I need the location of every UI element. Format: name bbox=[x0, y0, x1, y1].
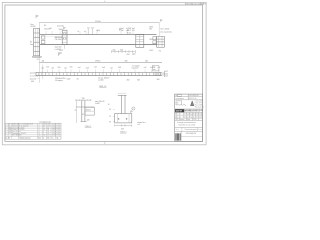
svg-text:Пров: Пров bbox=[199, 114, 202, 116]
svg-text:L=1200: L=1200 bbox=[98, 80, 104, 82]
svg-text:450: 450 bbox=[112, 50, 115, 52]
svg-text:0415-КМД1-025-2013-ТХ.СБ: 0415-КМД1-025-2013-ТХ.СБ bbox=[186, 3, 207, 5]
svg-text:18: 18 bbox=[47, 129, 49, 131]
svg-text:0415-КМД1.СБ: 0415-КМД1.СБ bbox=[186, 133, 196, 135]
end plate bolts right bbox=[153, 37, 156, 44]
svg-text:Ст: Ст bbox=[52, 138, 54, 140]
title block bottom cells and barcode bbox=[175, 131, 202, 141]
sheet inner frame bbox=[5, 5, 203, 141]
svg-text:265: 265 bbox=[137, 79, 140, 81]
svg-text:К1: К1 bbox=[9, 125, 11, 127]
svg-text:1ф2: 1ф2 bbox=[132, 53, 135, 56]
svg-text:1: 1 bbox=[5, 124, 6, 126]
detail1 right labels bbox=[95, 101, 105, 105]
svg-text:Спецификация: Спецификация bbox=[39, 121, 51, 124]
svg-text:300: 300 bbox=[157, 79, 160, 81]
svg-text:отв: отв bbox=[153, 69, 156, 71]
svg-text:314: 314 bbox=[47, 124, 50, 126]
beam top flange inner line bbox=[40, 35, 68, 37]
svg-text:321: 321 bbox=[165, 71, 168, 73]
svg-text:75: 75 bbox=[75, 110, 77, 112]
svg-text:1: 1 bbox=[39, 124, 40, 126]
plan view title bbox=[99, 86, 106, 88]
svg-text:св2: св2 bbox=[144, 67, 147, 69]
dim extension line left x39 bbox=[38, 22, 40, 83]
svg-text:405: 405 bbox=[42, 61, 45, 63]
svg-text:370: 370 bbox=[149, 28, 152, 30]
flag mark left bbox=[36, 15, 38, 18]
svg-text:Согласовано: Согласовано bbox=[175, 98, 184, 100]
svg-text:К2: К2 bbox=[159, 50, 161, 52]
right column labels below bbox=[149, 50, 160, 53]
svg-text:6: 6 bbox=[5, 133, 6, 135]
svg-text:N д: N д bbox=[187, 117, 189, 119]
svg-text:ГОСТ: ГОСТ bbox=[56, 124, 60, 126]
mid support bracket bbox=[136, 34, 144, 47]
svg-text:2шт: 2шт bbox=[30, 44, 33, 46]
svg-text:7: 7 bbox=[5, 135, 6, 137]
svg-text:Б1: Б1 bbox=[44, 25, 46, 27]
svg-text:170: 170 bbox=[47, 125, 50, 127]
svg-text:0415-КМД1-025: 0415-КМД1-025 bbox=[189, 95, 199, 97]
svg-text:24: 24 bbox=[47, 131, 49, 133]
svg-text:Б1: Б1 bbox=[201, 3, 203, 5]
plan dimension line bbox=[39, 61, 162, 63]
svg-text:С255: С255 bbox=[52, 129, 56, 131]
detail1 title bbox=[85, 126, 92, 128]
title block drawing title bbox=[177, 122, 197, 126]
svg-text:2лв 240: 2лв 240 bbox=[57, 25, 64, 27]
svg-text:Пр: Пр bbox=[56, 138, 58, 140]
detail2 title bbox=[120, 131, 127, 133]
leader ticks above beam bbox=[46, 29, 133, 35]
detail2 right label bbox=[137, 122, 145, 126]
svg-text:2шв240: 2шв240 bbox=[30, 72, 36, 74]
part labels above beam bbox=[44, 25, 135, 33]
title block signature table bbox=[175, 112, 203, 118]
title block middle zone bbox=[176, 101, 204, 109]
svg-text:Иванов: Иванов bbox=[180, 119, 185, 121]
overall dimension line top bbox=[39, 22, 159, 24]
svg-text:С255: С255 bbox=[52, 131, 56, 133]
svg-text:19940: 19940 bbox=[95, 21, 101, 23]
plan strip part labels bbox=[41, 64, 160, 72]
svg-text:2б3: 2б3 bbox=[58, 67, 61, 69]
svg-text:Подп: Подп bbox=[187, 119, 191, 121]
svg-text:2: 2 bbox=[133, 108, 134, 110]
svg-text:1п4: 1п4 bbox=[102, 67, 105, 69]
svg-text:св2: св2 bbox=[110, 67, 113, 69]
svg-text:1: 1 bbox=[39, 129, 40, 131]
right column K2 lattice bbox=[157, 36, 165, 47]
svg-text:ст3: ст3 bbox=[137, 124, 140, 126]
svg-text:ГОСТ: ГОСТ bbox=[56, 131, 60, 133]
fold mark bottom bbox=[104, 141, 106, 144]
svg-text:ГОСТ: ГОСТ bbox=[56, 129, 60, 131]
svg-text:Масса 588кг: Масса 588кг bbox=[195, 105, 203, 107]
plan strip beam body bbox=[36, 72, 162, 75]
title block outer grid bbox=[175, 94, 203, 141]
plan strip left labels bbox=[30, 72, 40, 83]
svg-text:90: 90 bbox=[109, 121, 111, 123]
title block company logo bbox=[175, 109, 202, 113]
flag mark right top bbox=[161, 19, 163, 21]
detail1 gusset box bbox=[85, 107, 94, 115]
beam bottom flange line bbox=[40, 44, 157, 46]
svg-text:ГИП: ГИП bbox=[175, 119, 178, 121]
detail2 post bbox=[118, 93, 127, 113]
detail2 left dims bbox=[108, 104, 115, 123]
svg-text:2б3: 2б3 bbox=[86, 67, 89, 69]
labels under beam left bbox=[55, 47, 62, 51]
svg-text:265: 265 bbox=[165, 73, 168, 75]
title block top rows text bbox=[175, 95, 199, 100]
svg-text:105: 105 bbox=[165, 76, 168, 78]
under-beam dimension chain bbox=[112, 50, 136, 56]
svg-text:ГОСТ: ГОСТ bbox=[56, 135, 60, 137]
svg-text:2: 2 bbox=[39, 125, 40, 127]
flag above splice bbox=[64, 27, 66, 30]
BOM table header bbox=[5, 137, 58, 140]
svg-text:40: 40 bbox=[77, 78, 79, 80]
plan strip lower labels bbox=[55, 77, 140, 82]
labels right of dim line bbox=[149, 26, 153, 30]
detail1 top dim bbox=[76, 98, 91, 101]
splice joint plates bbox=[62, 30, 67, 49]
svg-text:Листов: Листов bbox=[198, 129, 203, 131]
svg-text:С255: С255 bbox=[52, 133, 56, 135]
svg-text:2: 2 bbox=[43, 133, 44, 135]
svg-text:Связь ПВ1 L63x5: Связь ПВ1 L63x5 bbox=[12, 127, 24, 129]
doc number stamp top-right bbox=[185, 3, 206, 6]
svg-text:L=320: L=320 bbox=[95, 103, 100, 105]
svg-text:Болт М24х80: Болт М24х80 bbox=[12, 135, 22, 137]
svg-text:85: 85 bbox=[43, 125, 45, 127]
svg-text:Мк: Мк bbox=[47, 138, 49, 140]
svg-text:Масштаб 1:20: Масштаб 1:20 bbox=[195, 107, 204, 109]
svg-text:6: 6 bbox=[43, 131, 44, 133]
detail2 base box bbox=[115, 114, 132, 123]
svg-text:0.3: 0.3 bbox=[43, 135, 45, 137]
svg-text:10.13: 10.13 bbox=[193, 119, 197, 121]
svg-text:Балка Б1 на отм.+9.600: Балка Б1 на отм.+9.600 bbox=[179, 125, 196, 127]
svg-text:Отм.+9.600: Отм.+9.600 bbox=[160, 28, 169, 30]
splice labels below bbox=[59, 50, 63, 54]
svg-text:1п4: 1п4 bbox=[46, 67, 49, 69]
svg-text:18: 18 bbox=[43, 129, 45, 131]
svg-text:С255: С255 bbox=[52, 127, 56, 129]
svg-text:2x15: 2x15 bbox=[149, 50, 153, 52]
svg-text:Стальные конструкции КМД: Стальные конструкции КМД bbox=[185, 111, 201, 113]
svg-text:св2: св2 bbox=[41, 67, 44, 69]
svg-text:330: 330 bbox=[125, 60, 128, 62]
svg-text:Эстакада технологическая.: Эстакада технологическая. bbox=[177, 122, 197, 124]
svg-text:4.8: 4.8 bbox=[47, 135, 49, 137]
svg-text:ГОСТ 27772: ГОСТ 27772 bbox=[195, 103, 203, 105]
svg-text:отв. под болты: отв. под болты bbox=[160, 32, 172, 34]
mid bracket labels bbox=[127, 30, 132, 34]
svg-text:2013-ТХ.СБ: 2013-ТХ.СБ bbox=[189, 98, 197, 100]
svg-text:ГОСТ: ГОСТ bbox=[56, 127, 60, 129]
svg-text:С255: С255 bbox=[52, 124, 56, 126]
BOM table grid bbox=[5, 123, 61, 139]
svg-text:Про: Про bbox=[199, 117, 202, 119]
dim extension line right x159 bbox=[158, 22, 160, 36]
svg-text:сб: сб bbox=[78, 31, 80, 33]
title block date row bbox=[175, 118, 198, 121]
svg-text:Кол: Кол bbox=[38, 138, 41, 140]
detail1 left dim bbox=[75, 101, 77, 124]
svg-text:314: 314 bbox=[43, 124, 46, 126]
svg-text:сб: сб bbox=[84, 31, 86, 33]
detail2 marker circle bbox=[131, 107, 135, 113]
plan dim ext line x42 bbox=[42, 65, 44, 80]
svg-text:св2: св2 bbox=[51, 67, 54, 69]
svg-text:ГОСТ: ГОСТ bbox=[56, 125, 60, 127]
svg-text:265: 265 bbox=[145, 60, 148, 62]
detail1 bottom bbox=[81, 114, 90, 122]
svg-text:Изм: Изм bbox=[175, 95, 178, 97]
svg-text:3: 3 bbox=[5, 127, 6, 129]
svg-text:2: 2 bbox=[39, 127, 40, 129]
svg-text:Прокладка -125x10: Прокладка -125x10 bbox=[12, 133, 26, 135]
svg-text:45: 45 bbox=[82, 114, 84, 116]
svg-text:16: 16 bbox=[47, 133, 49, 135]
svg-text:1п4: 1п4 bbox=[70, 67, 73, 69]
fold mark top bbox=[104, 1, 106, 3]
svg-text:Вз: Вз bbox=[177, 103, 179, 105]
svg-text:ГОСТ: ГОСТ bbox=[56, 133, 60, 135]
flag below beam bbox=[58, 53, 60, 56]
svg-text:2б3: 2б3 bbox=[118, 67, 121, 69]
svg-text:ПВ: ПВ bbox=[153, 67, 155, 69]
svg-text:8 отв.: 8 отв. bbox=[127, 32, 132, 34]
svg-text:св2: св2 bbox=[94, 67, 97, 69]
svg-text:Изм: Изм bbox=[175, 114, 178, 116]
beam web labels bbox=[55, 36, 63, 41]
svg-text:св2: св2 bbox=[64, 67, 67, 69]
left column side labels bbox=[30, 42, 33, 46]
svg-text:под болт: под болт bbox=[132, 68, 139, 70]
svg-text:СБ видны: СБ видны bbox=[55, 80, 64, 82]
svg-text:L=11970: L=11970 bbox=[55, 49, 62, 51]
svg-text:50: 50 bbox=[109, 109, 111, 111]
svg-text:СБ-1500: СБ-1500 bbox=[55, 39, 62, 41]
svg-text:Колонна К1 из 2шв240: Колонна К1 из 2шв240 bbox=[12, 125, 28, 127]
svg-text:1000: 1000 bbox=[67, 78, 71, 80]
svg-text:4: 4 bbox=[39, 131, 40, 133]
svg-text:2: 2 bbox=[5, 125, 6, 127]
flag mark mid bbox=[119, 28, 121, 30]
svg-text:450: 450 bbox=[127, 79, 130, 81]
note right of column bbox=[160, 28, 172, 33]
svg-text:21: 21 bbox=[43, 127, 45, 129]
svg-text:450: 450 bbox=[127, 54, 130, 56]
svg-text:200x12: 200x12 bbox=[86, 109, 91, 111]
detail1 mid line bbox=[76, 106, 95, 108]
BOM table row entries bbox=[5, 123, 60, 137]
svg-text:Лист: Лист bbox=[176, 129, 179, 131]
svg-text:К1: К1 bbox=[37, 59, 39, 61]
svg-text:5: 5 bbox=[5, 131, 6, 133]
sheet outer border bbox=[2, 2, 206, 144]
svg-text:16: 16 bbox=[39, 135, 41, 137]
svg-text:4: 4 bbox=[5, 129, 6, 131]
svg-text:450: 450 bbox=[120, 50, 123, 52]
svg-text:Связь ПВ2 L63x5: Связь ПВ2 L63x5 bbox=[12, 129, 24, 131]
svg-text:С255: С255 bbox=[52, 125, 56, 127]
svg-text:Б1: Б1 bbox=[9, 124, 11, 126]
svg-text:Лист 200х12: Лист 200х12 bbox=[12, 131, 21, 133]
svg-text:19940: 19940 bbox=[95, 61, 100, 63]
svg-text:405: 405 bbox=[31, 81, 34, 83]
svg-text:1л 125x10: 1л 125x10 bbox=[30, 75, 38, 77]
svg-text:Изм: Изм bbox=[175, 117, 178, 119]
svg-text:120: 120 bbox=[87, 120, 90, 122]
svg-text:ПВ2: ПВ2 bbox=[149, 39, 153, 41]
svg-text:40: 40 bbox=[50, 28, 52, 30]
svg-text:42: 42 bbox=[47, 127, 49, 129]
svg-text:Сталь С255: Сталь С255 bbox=[195, 101, 203, 103]
svg-text:Наименование: Наименование bbox=[20, 138, 31, 140]
svg-text:С255: С255 bbox=[52, 135, 56, 137]
left column K1 lattice bbox=[33, 28, 42, 57]
note text left elev bbox=[30, 24, 36, 28]
svg-text:1000: 1000 bbox=[59, 29, 63, 31]
svg-text:8: 8 bbox=[39, 133, 40, 135]
detail1 post bbox=[82, 101, 85, 122]
title block sheet row bbox=[176, 127, 203, 131]
beam top flange line bbox=[40, 34, 157, 36]
svg-text:+9.600: +9.600 bbox=[30, 26, 36, 28]
plan strip end detail bbox=[152, 66, 168, 81]
svg-text:1б: 1б bbox=[108, 104, 110, 106]
svg-text:450: 450 bbox=[121, 129, 124, 131]
svg-text:св2: св2 bbox=[78, 67, 81, 69]
detail2 bottom dim bbox=[115, 124, 132, 130]
end plate bolts left bbox=[41, 36, 45, 44]
svg-text:75: 75 bbox=[109, 116, 111, 118]
